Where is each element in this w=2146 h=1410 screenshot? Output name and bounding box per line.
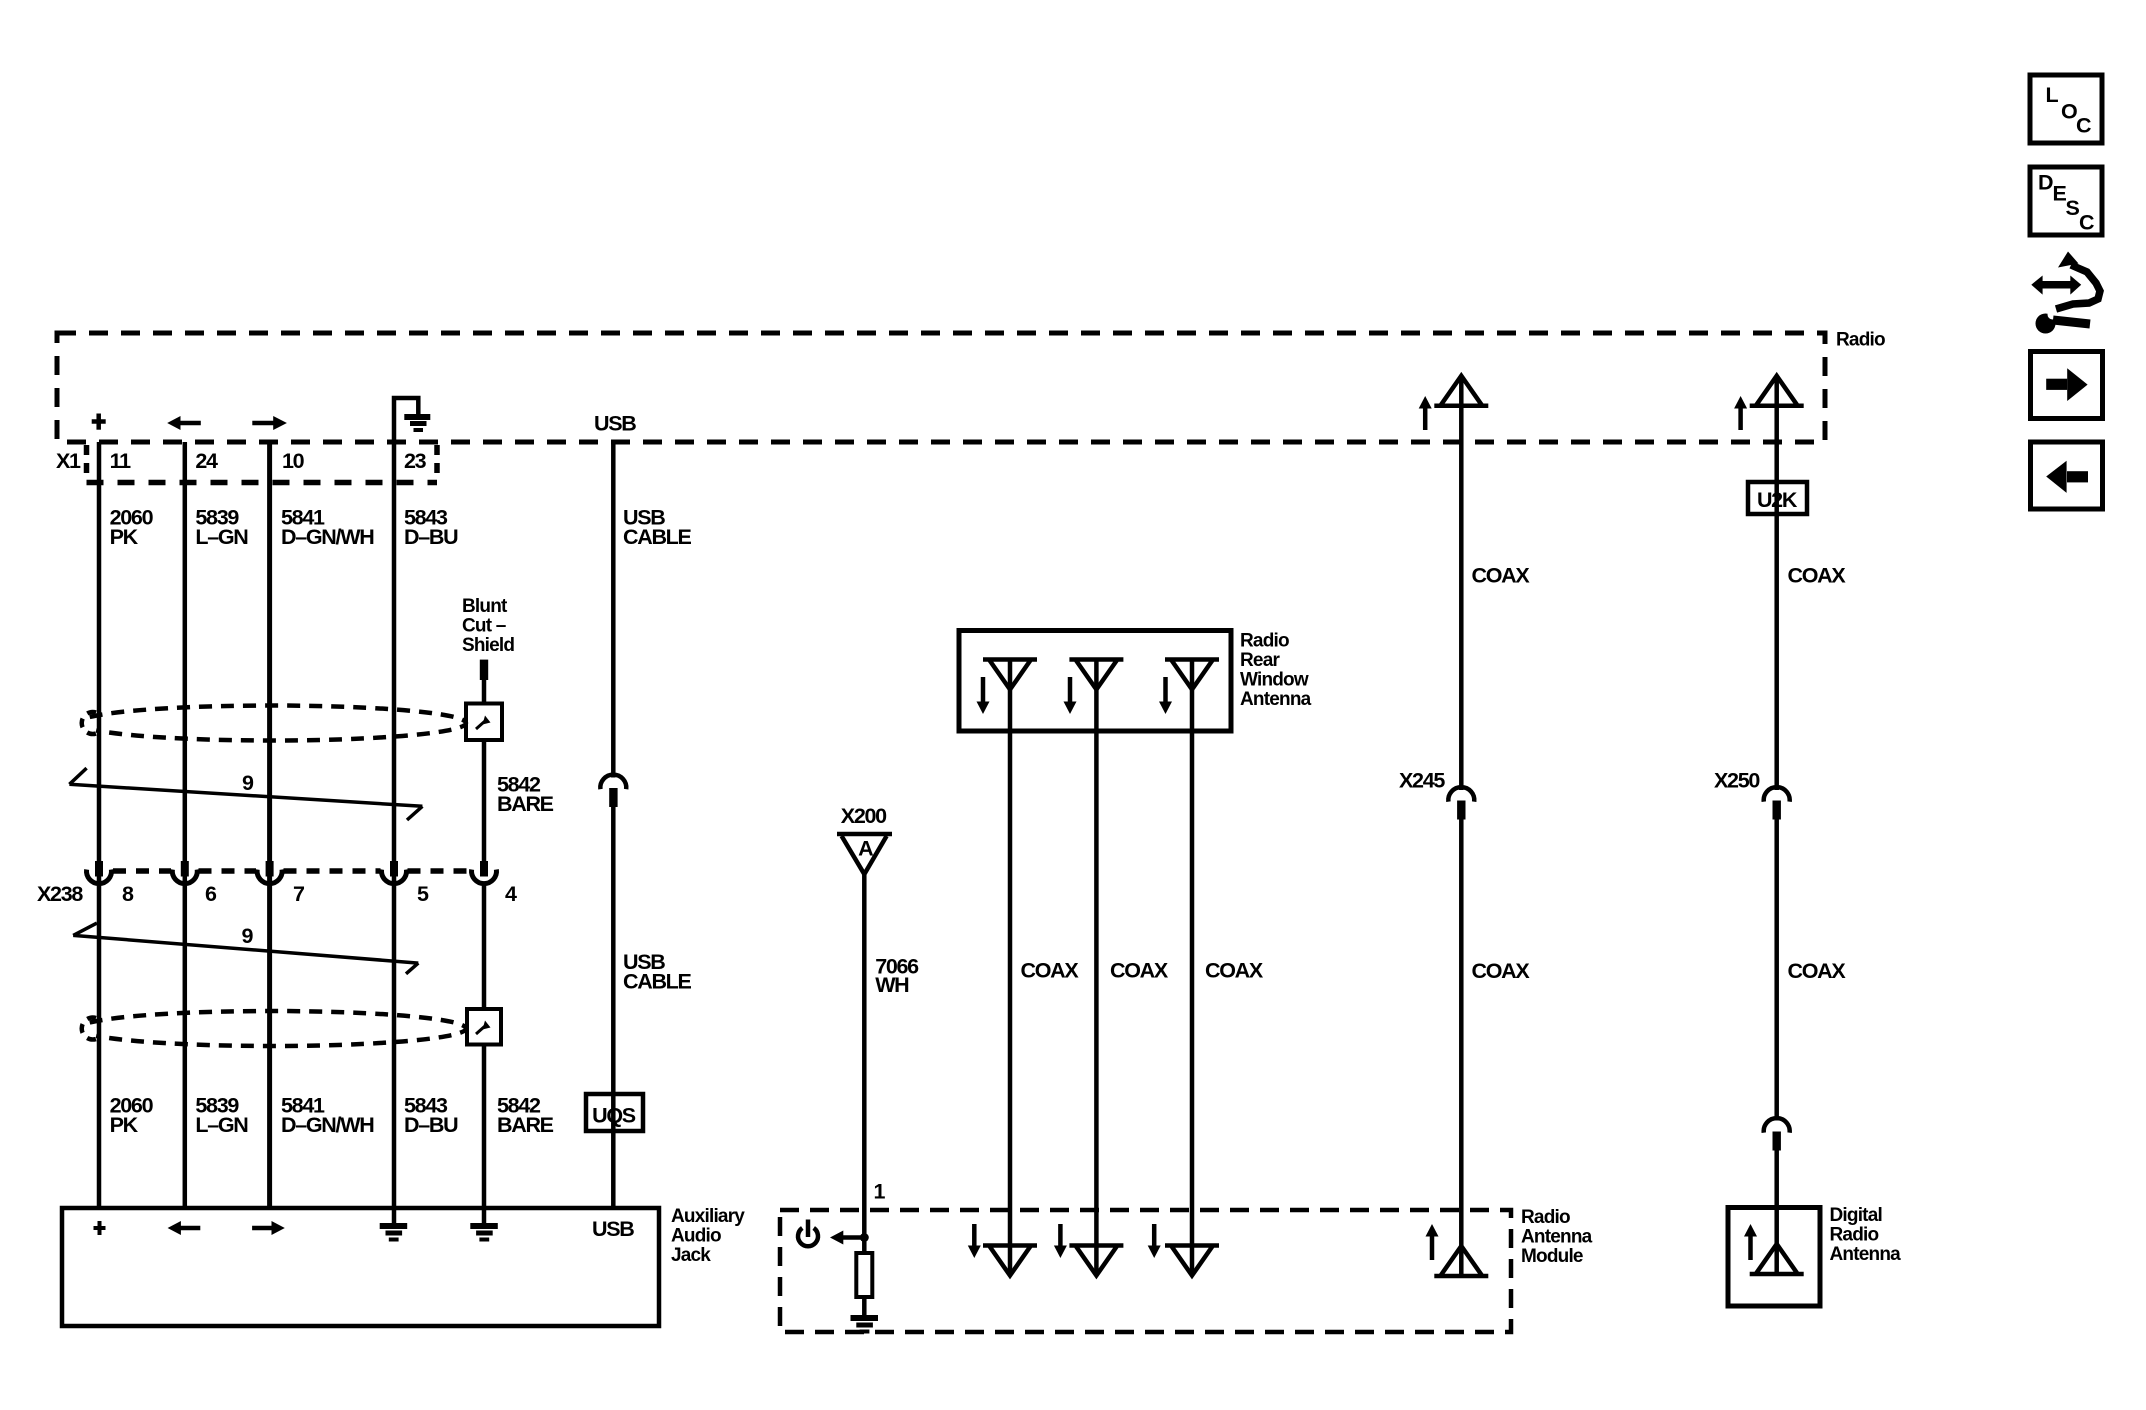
svg-text:E: E	[2053, 182, 2067, 206]
X245 coax wire lower	[1459, 820, 1464, 1277]
svg-text:C: C	[2079, 211, 2094, 235]
svg-text:4: 4	[505, 882, 517, 906]
COAX wire 2	[1094, 660, 1099, 1276]
tool icon	[2031, 252, 2100, 334]
COAX wire 1	[1008, 660, 1013, 1276]
svg-text:COAX: COAX	[1110, 959, 1169, 983]
USB CABLE label 2	[623, 950, 692, 994]
svg-text:COAX: COAX	[1788, 564, 1847, 588]
X245 coax wire upper	[1459, 377, 1464, 790]
svg-text:Window: Window	[1240, 670, 1309, 691]
svg-text:Jack: Jack	[671, 1245, 711, 1266]
svg-text:Audio: Audio	[671, 1226, 721, 1247]
svg-text:USB: USB	[594, 412, 636, 436]
X250 wire lower	[1774, 820, 1779, 1121]
X250 inline connector	[1764, 787, 1790, 819]
antenna 2 (rear window)	[1069, 660, 1123, 690]
svg-text:S: S	[2066, 196, 2080, 220]
wrench	[2036, 314, 2056, 334]
twisted pair ellipse 1	[90, 706, 466, 741]
svg-text:CABLE: CABLE	[623, 970, 692, 994]
antenna 3 (rear window)	[1165, 660, 1219, 690]
module antenna 2	[1069, 1246, 1123, 1276]
module right antenna (up)	[1434, 1246, 1488, 1276]
svg-text:X200: X200	[841, 804, 887, 828]
USB CABLE label 1	[623, 506, 692, 550]
svg-text:Radio: Radio	[1836, 330, 1885, 351]
UQS box	[586, 1094, 643, 1131]
wire 5839 L-GN	[183, 442, 188, 1208]
Blunt Cut - Shield label	[462, 596, 514, 656]
curved arrow	[2056, 265, 2100, 309]
wire 5843 D-BU	[392, 442, 397, 1223]
svg-text:Radio: Radio	[1521, 1207, 1570, 1228]
Radio dashed box	[57, 333, 1825, 442]
wire to digital antenna	[1774, 1150, 1779, 1274]
pin+cup wire4	[381, 861, 406, 884]
down arrow 1 (rear window)	[977, 677, 990, 714]
plus symbol (aux)	[94, 1221, 106, 1235]
wire labels top row	[110, 506, 459, 550]
svg-text:Blunt: Blunt	[462, 596, 508, 617]
svg-text:WH: WH	[875, 973, 909, 997]
svg-text:Antenna: Antenna	[1521, 1227, 1593, 1248]
svg-text:10: 10	[282, 449, 305, 473]
LOC box	[2030, 75, 2102, 143]
arrow to power symbol	[830, 1231, 864, 1245]
resistor	[856, 1253, 872, 1297]
svg-text:23: 23	[404, 449, 427, 473]
Radio Antenna Module dashed box	[780, 1210, 1511, 1332]
svg-text:11: 11	[110, 449, 131, 473]
ground (module)	[851, 1318, 879, 1332]
svg-text:UQS: UQS	[592, 1104, 636, 1128]
wire 5841 D-GN/WH	[267, 442, 272, 1208]
svg-text:L: L	[2046, 83, 2059, 107]
ground (aux, 5843)	[380, 1226, 408, 1240]
wire 7066 WH	[862, 874, 867, 1253]
svg-text:CABLE: CABLE	[623, 525, 692, 549]
9 arrow 1	[69, 768, 422, 820]
X250 top antenna	[1750, 376, 1804, 406]
svg-text:Auxiliary: Auxiliary	[671, 1206, 745, 1227]
X250 wire upper	[1774, 377, 1779, 790]
X200 connector triangle	[837, 834, 892, 874]
svg-text:24: 24	[195, 449, 218, 473]
X245 inline connector	[1448, 787, 1474, 819]
svg-text:Antenna: Antenna	[1240, 689, 1312, 710]
svg-text:COAX: COAX	[1472, 959, 1531, 983]
COAX wire 3	[1190, 660, 1195, 1276]
svg-text:D–GN/WH: D–GN/WH	[281, 1113, 374, 1137]
svg-text:Radio: Radio	[1240, 631, 1289, 652]
wire 5842 bare	[482, 680, 487, 704]
svg-text:7: 7	[293, 882, 305, 906]
svg-text:8: 8	[122, 882, 134, 906]
svg-text:9: 9	[242, 924, 254, 948]
svg-text:Rear: Rear	[1240, 650, 1280, 671]
svg-text:X245: X245	[1399, 769, 1445, 793]
ground symbol (radio, wire 5843)	[394, 398, 430, 442]
svg-text:X250: X250	[1714, 769, 1760, 793]
X245 top up arrow	[1419, 396, 1432, 430]
svg-text:L–GN: L–GN	[195, 1113, 248, 1137]
svg-text:D–GN/WH: D–GN/WH	[281, 525, 374, 549]
down arrow 3 (rear window)	[1159, 677, 1172, 714]
svg-text:Shield: Shield	[462, 635, 514, 656]
wire 2060 PK	[97, 442, 102, 1208]
pin+cup wire5	[472, 861, 497, 884]
Digital Radio Antenna box	[1728, 1208, 1820, 1307]
U2K box	[1748, 482, 1807, 514]
Radio Rear Window Antenna box	[959, 631, 1231, 732]
svg-text:D–BU: D–BU	[404, 525, 458, 549]
svg-text:BARE: BARE	[497, 1113, 554, 1137]
double arrow	[2041, 281, 2071, 289]
svg-text:PK: PK	[110, 1113, 139, 1137]
wire labels bottom row	[110, 1094, 554, 1138]
svg-text:O: O	[2061, 100, 2077, 124]
svg-text:X1: X1	[56, 449, 81, 473]
right arrow box	[2031, 352, 2103, 419]
junction dot	[860, 1233, 869, 1242]
down arrow 2 (rear window)	[1064, 677, 1077, 714]
ellipse 2 left curl	[82, 1018, 96, 1040]
splice box 1	[466, 704, 502, 741]
X238 dotted link line	[113, 868, 471, 874]
X250 inline connector 2	[1764, 1118, 1790, 1150]
X250 top up arrow	[1734, 396, 1747, 430]
module up arrow	[1426, 1224, 1439, 1260]
Auxiliary Audio Jack label	[671, 1206, 745, 1266]
pin+cup wire3	[257, 861, 282, 884]
ground (aux, 5842)	[470, 1226, 498, 1240]
svg-text:Cut –: Cut –	[462, 616, 506, 637]
right arrow (aux)	[252, 1221, 285, 1235]
splice box 2	[467, 1009, 501, 1045]
svg-text:Digital: Digital	[1830, 1205, 1882, 1226]
9 arrow 2	[73, 923, 418, 974]
left arrow (aux)	[168, 1221, 201, 1235]
svg-text:D: D	[2038, 171, 2053, 195]
svg-text:COAX: COAX	[1205, 959, 1264, 983]
left arrow box	[2031, 442, 2103, 509]
pin+cup wire1	[87, 861, 112, 884]
right arrow (radio)	[252, 416, 287, 430]
5842 BARE label	[497, 773, 554, 817]
svg-text:COAX: COAX	[1472, 564, 1531, 588]
module antenna 1	[983, 1246, 1037, 1276]
svg-text:A: A	[858, 837, 873, 861]
digital antenna symbol	[1750, 1244, 1804, 1274]
inline connector (USB cable)	[600, 775, 626, 807]
svg-text:Module: Module	[1521, 1246, 1583, 1267]
svg-text:9: 9	[242, 771, 254, 795]
svg-text:COAX: COAX	[1788, 959, 1847, 983]
svg-text:5: 5	[417, 882, 429, 906]
module antenna 3	[1165, 1246, 1219, 1276]
module down arrow 3	[1148, 1224, 1161, 1258]
digital up arrow	[1744, 1224, 1757, 1260]
left arrow (radio)	[167, 416, 201, 430]
ellipse 1 left curl	[82, 712, 96, 734]
svg-text:PK: PK	[110, 525, 139, 549]
USB cable wire	[611, 442, 616, 778]
X238 connector row	[87, 861, 497, 884]
svg-text:C: C	[2076, 114, 2091, 138]
svg-text:D–BU: D–BU	[404, 1113, 458, 1137]
DESC box	[2030, 167, 2102, 235]
wire stubs inside aux box	[392, 1208, 397, 1224]
svg-text:COAX: COAX	[1021, 959, 1080, 983]
svg-text:L–GN: L–GN	[195, 525, 248, 549]
svg-text:X238: X238	[37, 882, 83, 906]
module down arrow 1	[968, 1224, 981, 1258]
pin+cup wire2	[172, 861, 197, 884]
svg-text:Radio: Radio	[1830, 1225, 1879, 1246]
power symbol	[798, 1220, 818, 1247]
svg-text:USB: USB	[592, 1217, 634, 1241]
plus symbol (radio)	[92, 414, 106, 430]
antenna 1 (rear window)	[983, 660, 1037, 690]
X245 top antenna	[1434, 376, 1488, 406]
svg-text:1: 1	[874, 1180, 886, 1204]
module down arrow 2	[1054, 1224, 1067, 1258]
svg-text:Antenna: Antenna	[1830, 1244, 1902, 1265]
svg-text:U2K: U2K	[1757, 488, 1798, 512]
X1 connector dotted box	[87, 445, 438, 483]
svg-text:6: 6	[205, 882, 217, 906]
Auxiliary Audio Jack box	[62, 1208, 659, 1326]
blunt cut end bar (5842)	[480, 660, 488, 680]
svg-text:BARE: BARE	[497, 792, 554, 816]
twisted pair ellipse 2	[90, 1011, 466, 1046]
